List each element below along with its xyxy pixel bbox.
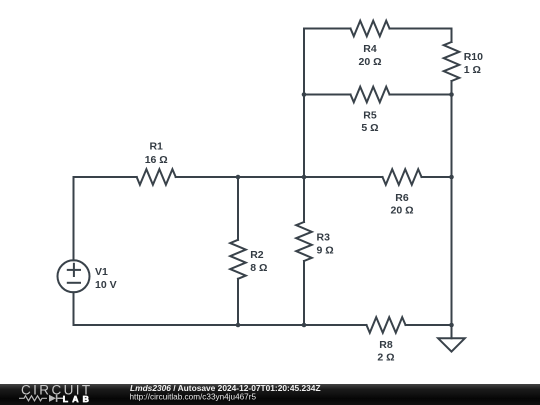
wire mid vertical upper segment xyxy=(303,29,305,95)
wire main horizontal left segment xyxy=(74,176,137,178)
svg-text:V1: V1 xyxy=(95,266,108,278)
label R8 designator and value xyxy=(377,339,394,364)
resistor R10 xyxy=(444,42,460,81)
footer bar xyxy=(0,384,540,405)
wire right vertical R10 to R5 node xyxy=(451,81,453,95)
svg-text:8 Ω: 8 Ω xyxy=(250,262,267,274)
svg-text:R6: R6 xyxy=(395,192,409,204)
svg-text:R1: R1 xyxy=(149,141,163,153)
wire mid vertical middle segment xyxy=(303,95,305,178)
junction node mid/main wire xyxy=(302,175,307,180)
voltage source V1 xyxy=(58,260,90,292)
junction node right/main wire xyxy=(449,175,454,180)
svg-text:2 Ω: 2 Ω xyxy=(377,352,394,364)
resistor R3 xyxy=(296,222,312,261)
wire top horizontal left segment xyxy=(304,28,351,30)
svg-text:R4: R4 xyxy=(363,43,377,55)
label V1 designator and value xyxy=(95,266,117,291)
wire R5 horizontal right segment xyxy=(390,94,452,96)
wire bottom horizontal right segment xyxy=(406,324,452,326)
wire R5 horizontal left segment xyxy=(304,94,351,96)
wire R2 branch top lead xyxy=(237,177,239,240)
wire R3 branch bottom lead xyxy=(303,261,305,325)
CircuitLab logo diode symbol xyxy=(49,395,63,402)
svg-text:R10: R10 xyxy=(464,51,483,63)
junction node R2/bottom wire xyxy=(236,323,241,328)
wire R2 branch bottom lead xyxy=(237,279,239,325)
svg-text:Lmds2306 / Autosave 2024-12-07: Lmds2306 / Autosave 2024-12-07T01:20:45.… xyxy=(130,383,321,393)
junction node right/R5 wire xyxy=(449,92,454,97)
junction node right/bottom wire xyxy=(449,323,454,328)
resistor R1 xyxy=(137,169,176,185)
svg-text:LAB: LAB xyxy=(63,394,93,404)
wire right vertical R5 node to main wire xyxy=(451,95,453,178)
svg-text:20 Ω: 20 Ω xyxy=(358,56,381,68)
wire left vertical below V1 xyxy=(73,292,75,325)
svg-text:5 Ω: 5 Ω xyxy=(361,122,378,134)
ground xyxy=(438,325,465,352)
svg-text:R3: R3 xyxy=(317,232,331,244)
svg-text:R8: R8 xyxy=(379,339,393,351)
label R1 designator and value xyxy=(145,141,168,167)
svg-text:10 V: 10 V xyxy=(95,279,117,291)
junction node mid/bottom wire xyxy=(302,323,307,328)
wire top horizontal right segment with corner xyxy=(390,29,452,43)
wire main horizontal middle segment xyxy=(176,176,383,178)
label R3 designator and value xyxy=(317,232,334,257)
resistor R2 xyxy=(230,240,246,279)
junction node mid/R5 wire xyxy=(302,92,307,97)
label R10 designator and value xyxy=(464,51,483,76)
wire bottom horizontal left segment xyxy=(74,324,367,326)
svg-text:16 Ω: 16 Ω xyxy=(145,154,168,166)
svg-text:20 Ω: 20 Ω xyxy=(390,205,413,217)
svg-text:1 Ω: 1 Ω xyxy=(464,64,481,76)
wire R3 branch top lead xyxy=(303,177,305,222)
label R5 designator and value xyxy=(361,110,378,135)
resistor R5 xyxy=(351,87,390,103)
svg-text:9 Ω: 9 Ω xyxy=(317,244,334,256)
wire main horizontal right segment xyxy=(422,176,452,178)
label R6 designator and value xyxy=(390,192,413,217)
CircuitLab logo waveform resistor squiggle xyxy=(19,396,47,401)
resistor R6 xyxy=(383,169,422,185)
label R2 designator and value xyxy=(250,249,267,274)
label R4 designator and value xyxy=(358,43,381,68)
wire left vertical above V1 xyxy=(73,177,75,260)
resistor R8 xyxy=(367,317,406,333)
svg-text:R5: R5 xyxy=(363,110,377,122)
svg-text:http://circuitlab.com/c33yn4ju: http://circuitlab.com/c33yn4ju467r5 xyxy=(130,392,257,401)
wire right vertical main wire to bottom xyxy=(451,177,453,325)
resistor R4 xyxy=(351,21,390,37)
svg-text:R2: R2 xyxy=(250,249,264,261)
junction node R2/main wire xyxy=(236,175,241,180)
